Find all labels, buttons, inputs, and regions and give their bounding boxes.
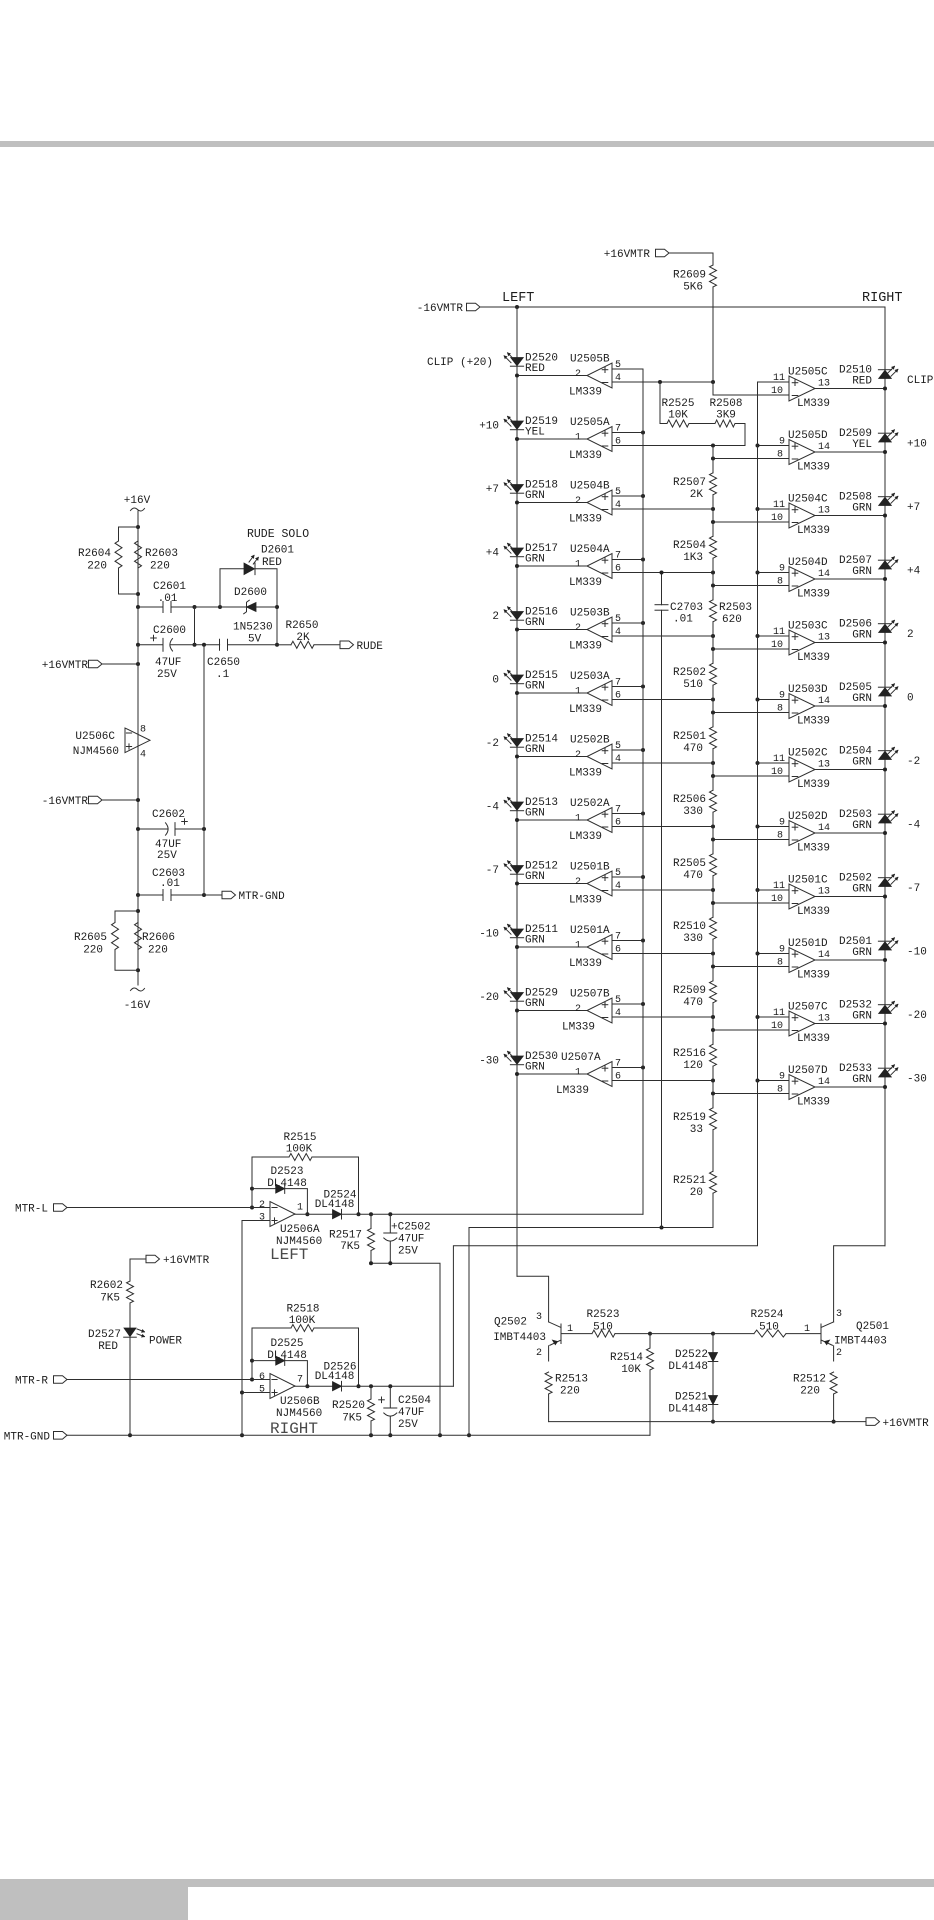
LED D2509 YEL bbox=[839, 428, 898, 451]
svg-text:GRN: GRN bbox=[852, 757, 872, 769]
wire threshold bbox=[612, 698, 715, 702]
resistor R2515 100K bbox=[250, 1132, 361, 1216]
LED D2530 GRN bbox=[504, 1051, 558, 1074]
svg-text:GRN: GRN bbox=[525, 490, 545, 502]
wire -16VMTR to rail bbox=[102, 798, 140, 802]
resistor R2505 470 bbox=[673, 854, 717, 882]
node scale -2 (right) bbox=[907, 756, 920, 768]
op-amp U2507A LM339 bbox=[556, 1052, 621, 1097]
svg-text:47UF: 47UF bbox=[155, 839, 181, 851]
svg-text:D2525: D2525 bbox=[270, 1338, 303, 1350]
resistor R2525 10K bbox=[660, 382, 695, 427]
label LEFT channel bbox=[270, 1246, 308, 1264]
svg-text:D2523: D2523 bbox=[270, 1166, 303, 1178]
LED D2507 GRN bbox=[839, 555, 898, 578]
svg-text:Q2502: Q2502 bbox=[494, 1317, 527, 1329]
wire pin stub bbox=[612, 621, 645, 625]
svg-text:470: 470 bbox=[683, 997, 703, 1009]
svg-text:10: 10 bbox=[771, 386, 783, 397]
svg-text:LM339: LM339 bbox=[797, 1097, 830, 1109]
capacitor C2602 47UF 25V bbox=[136, 809, 206, 862]
svg-text:+16VMTR: +16VMTR bbox=[883, 1418, 930, 1430]
op-amp U2503D LM339 bbox=[777, 684, 830, 728]
svg-text:U2501B: U2501B bbox=[570, 862, 610, 874]
wire threshold bbox=[711, 711, 789, 715]
svg-text:D2522: D2522 bbox=[675, 1349, 708, 1361]
wire output bbox=[815, 958, 887, 962]
svg-text:C2601: C2601 bbox=[153, 581, 186, 593]
svg-text:4: 4 bbox=[615, 754, 621, 765]
wire +16VMTR to rail bbox=[102, 662, 140, 666]
svg-text:LM339: LM339 bbox=[797, 525, 830, 537]
wire output bbox=[815, 450, 887, 454]
svg-text:11: 11 bbox=[773, 1008, 785, 1019]
svg-text:U2506B: U2506B bbox=[280, 1396, 320, 1408]
diode D2526 DL4148 bbox=[315, 1362, 357, 1392]
LED D2512 GRN bbox=[504, 861, 558, 884]
svg-text:D2600: D2600 bbox=[234, 587, 267, 599]
capacitor C2703 .01 bbox=[655, 571, 703, 1228]
svg-text:GRN: GRN bbox=[852, 693, 872, 705]
wire output bbox=[515, 1072, 587, 1076]
svg-text:U2503A: U2503A bbox=[570, 671, 610, 683]
wire ladder bbox=[712, 495, 714, 536]
svg-text:470: 470 bbox=[683, 870, 703, 882]
svg-text:LM339: LM339 bbox=[569, 641, 602, 653]
LED D2532 GRN bbox=[839, 1000, 898, 1023]
svg-text:5K6: 5K6 bbox=[683, 282, 703, 294]
svg-text:LEFT: LEFT bbox=[502, 291, 534, 306]
svg-text:25V: 25V bbox=[398, 1246, 418, 1258]
diode D2523 DL4148 bbox=[252, 1166, 309, 1216]
svg-text:D2527: D2527 bbox=[88, 1329, 121, 1341]
node scale -30 (left) bbox=[479, 1056, 499, 1068]
connector MTR-GND (mid-left) bbox=[204, 891, 285, 903]
wire output bbox=[515, 818, 587, 822]
svg-text:GRN: GRN bbox=[852, 884, 872, 896]
svg-text:2K: 2K bbox=[690, 489, 704, 501]
wire pin stub bbox=[756, 1015, 790, 1019]
wire threshold bbox=[711, 774, 789, 778]
svg-text:6: 6 bbox=[259, 1372, 265, 1383]
svg-text:NJM4560: NJM4560 bbox=[73, 746, 119, 758]
svg-text:9: 9 bbox=[779, 691, 785, 702]
svg-text:6: 6 bbox=[615, 691, 621, 702]
svg-text:C2703: C2703 bbox=[670, 602, 703, 614]
wire pin stub bbox=[756, 444, 790, 448]
svg-text:11: 11 bbox=[773, 881, 785, 892]
op-amp U2501C LM339 bbox=[771, 875, 830, 919]
svg-text:U2506A: U2506A bbox=[280, 1224, 320, 1236]
op-amp U2505C LM339 bbox=[771, 367, 830, 411]
op-amp U2503B LM339 bbox=[569, 608, 621, 653]
svg-text:DL4148: DL4148 bbox=[315, 1371, 355, 1383]
svg-text:5: 5 bbox=[615, 614, 621, 625]
wire -16VMTR rail top bbox=[480, 305, 885, 309]
svg-text:10: 10 bbox=[771, 513, 783, 524]
svg-text:R2602: R2602 bbox=[90, 1280, 123, 1292]
svg-text:R2521: R2521 bbox=[673, 1175, 706, 1187]
svg-text:LM339: LM339 bbox=[569, 958, 602, 970]
LED D2501 GRN bbox=[839, 936, 898, 959]
wire threshold bbox=[711, 457, 789, 461]
svg-text:U2507A: U2507A bbox=[561, 1052, 601, 1064]
svg-text:U2505A: U2505A bbox=[570, 417, 610, 429]
svg-text:RED: RED bbox=[98, 1341, 118, 1353]
wire ladder bbox=[712, 876, 714, 917]
svg-text:RED: RED bbox=[852, 376, 872, 388]
wire pin stub bbox=[612, 685, 645, 689]
wire pin stub bbox=[756, 888, 790, 892]
wire output bbox=[815, 704, 887, 708]
svg-text:LM339: LM339 bbox=[797, 779, 830, 791]
wire threshold bbox=[612, 507, 715, 511]
svg-text:7: 7 bbox=[615, 932, 621, 943]
svg-text:1: 1 bbox=[575, 814, 581, 825]
svg-text:5: 5 bbox=[615, 741, 621, 752]
svg-text:+10: +10 bbox=[907, 439, 927, 451]
wire MTR-R to pin 6 bbox=[67, 1379, 270, 1381]
svg-text:R2525: R2525 bbox=[661, 398, 694, 410]
svg-text:U2501A: U2501A bbox=[570, 925, 610, 937]
capacitor C2504 47UF 25V bbox=[379, 1384, 432, 1437]
wire node A to pin 10 bbox=[713, 382, 789, 395]
wire pin 5 ground bbox=[242, 1392, 270, 1394]
wire ladder bbox=[712, 622, 714, 663]
connector MTR-GND (bottom) bbox=[4, 1431, 67, 1443]
svg-text:LM339: LM339 bbox=[797, 906, 830, 918]
svg-text:U2501C: U2501C bbox=[788, 875, 828, 887]
wire threshold bbox=[711, 838, 789, 842]
svg-text:LM339: LM339 bbox=[569, 704, 602, 716]
svg-text:-2: -2 bbox=[907, 756, 920, 768]
svg-text:5: 5 bbox=[259, 1385, 265, 1396]
wire threshold bbox=[612, 571, 715, 575]
svg-text:LM339: LM339 bbox=[569, 514, 602, 526]
svg-text:11: 11 bbox=[773, 627, 785, 638]
svg-text:7K5: 7K5 bbox=[100, 1293, 120, 1305]
svg-text:MTR-GND: MTR-GND bbox=[4, 1431, 51, 1443]
svg-text:U2504B: U2504B bbox=[570, 481, 610, 493]
svg-text:D2601: D2601 bbox=[261, 545, 294, 557]
svg-text:14: 14 bbox=[818, 1077, 830, 1088]
wire pin stub bbox=[758, 381, 790, 383]
svg-text:LM339: LM339 bbox=[569, 450, 602, 462]
node scale -10 (right) bbox=[907, 947, 927, 959]
wire output bbox=[515, 628, 587, 632]
wire threshold bbox=[612, 825, 715, 829]
connector RUDE bbox=[340, 641, 383, 653]
wire output bbox=[815, 514, 887, 518]
node scale -30 (right) bbox=[907, 1074, 927, 1086]
svg-text:6: 6 bbox=[615, 564, 621, 575]
svg-text:LM339: LM339 bbox=[562, 1022, 595, 1034]
node scale +7 (left) bbox=[486, 484, 499, 496]
svg-text:GRN: GRN bbox=[525, 871, 545, 883]
svg-text:10: 10 bbox=[771, 894, 783, 905]
wire output bbox=[815, 895, 887, 899]
svg-text:U2504A: U2504A bbox=[570, 544, 610, 556]
svg-text:U2501D: U2501D bbox=[788, 938, 828, 950]
svg-text:LM339: LM339 bbox=[797, 843, 830, 855]
resistor R2602 7K5 bbox=[90, 1280, 134, 1305]
svg-text:+7: +7 bbox=[486, 484, 499, 496]
svg-text:LM339: LM339 bbox=[569, 831, 602, 843]
svg-text:1K3: 1K3 bbox=[683, 552, 703, 564]
svg-text:0: 0 bbox=[907, 693, 914, 705]
wire output bbox=[815, 1022, 887, 1026]
LED D2511 GRN bbox=[504, 924, 558, 947]
wire output bbox=[815, 831, 887, 835]
resistor R2510 330 bbox=[673, 917, 717, 945]
svg-text:1: 1 bbox=[297, 1203, 303, 1214]
svg-text:47UF: 47UF bbox=[398, 1407, 424, 1419]
svg-text:R2518: R2518 bbox=[286, 1304, 319, 1316]
svg-text:7: 7 bbox=[615, 678, 621, 689]
resistor R2603 220 bbox=[135, 541, 179, 573]
resistor R2514 10K bbox=[610, 1332, 654, 1436]
svg-text:25V: 25V bbox=[398, 1419, 418, 1431]
svg-text:6: 6 bbox=[615, 945, 621, 956]
svg-text:47UF: 47UF bbox=[155, 657, 181, 669]
svg-text:Q2501: Q2501 bbox=[856, 1321, 889, 1333]
diode D2522 DL4148 bbox=[668, 1334, 717, 1373]
svg-text:GRN: GRN bbox=[852, 1011, 872, 1023]
svg-text:3: 3 bbox=[836, 1309, 842, 1320]
op-amp U2502C LM339 bbox=[771, 748, 830, 792]
LED D2529 GRN bbox=[504, 988, 558, 1011]
svg-text:R2508: R2508 bbox=[709, 398, 742, 410]
svg-text:GRN: GRN bbox=[525, 617, 545, 629]
svg-text:MTR-R: MTR-R bbox=[15, 1376, 48, 1388]
svg-text:8: 8 bbox=[777, 958, 783, 969]
svg-text:7: 7 bbox=[615, 551, 621, 562]
node scale CLIP (+20) (left) bbox=[427, 357, 493, 369]
op-amp U2507C LM339 bbox=[771, 1002, 830, 1046]
svg-text:GRN: GRN bbox=[525, 681, 545, 693]
capacitor C2601 .01 bbox=[136, 581, 197, 613]
op-amp U2505D LM339 bbox=[777, 430, 830, 474]
svg-text:U2507C: U2507C bbox=[788, 1002, 828, 1014]
svg-text:LM339: LM339 bbox=[556, 1085, 589, 1097]
capacitor C2600 47UF 25V bbox=[136, 625, 195, 681]
svg-text:GRN: GRN bbox=[852, 630, 872, 642]
resistor R2504 1K3 bbox=[673, 536, 717, 564]
svg-text:R2512: R2512 bbox=[793, 1374, 826, 1386]
svg-text:LM339: LM339 bbox=[797, 462, 830, 474]
node scale -7 (right) bbox=[907, 883, 920, 895]
svg-text:20: 20 bbox=[690, 1187, 703, 1199]
resistor R2516 120 bbox=[673, 1044, 717, 1072]
wire base net bbox=[650, 1332, 715, 1336]
LED D2510 RED bbox=[839, 365, 898, 388]
op-amp U2503A LM339 bbox=[569, 671, 621, 716]
svg-text:R2523: R2523 bbox=[586, 1309, 619, 1321]
diode D2600 1N5230 5V bbox=[220, 587, 277, 646]
wire threshold bbox=[711, 584, 789, 588]
svg-text:U2502D: U2502D bbox=[788, 811, 828, 823]
op-amp U2504C LM339 bbox=[771, 494, 830, 538]
LED D2504 GRN bbox=[839, 746, 898, 769]
LED D2508 GRN bbox=[839, 492, 898, 515]
capacitor C2502 47UF 25V bbox=[384, 1212, 431, 1263]
svg-text:10K: 10K bbox=[621, 1364, 641, 1376]
op-amp U2501B LM339 bbox=[569, 862, 621, 907]
svg-text:C2602: C2602 bbox=[152, 809, 185, 821]
resistor R2519 33 bbox=[673, 1108, 717, 1136]
op-amp U2506C NJM4560 bbox=[73, 725, 150, 761]
svg-text:LM339: LM339 bbox=[797, 589, 830, 601]
wire pin stub bbox=[612, 1066, 645, 1070]
svg-text:+16VMTR: +16VMTR bbox=[42, 660, 89, 672]
svg-text:U2507D: U2507D bbox=[788, 1065, 828, 1077]
wire pin stub bbox=[612, 1002, 645, 1006]
LED D2519 YEL bbox=[504, 416, 558, 439]
wire pin stub bbox=[756, 571, 790, 575]
svg-text:8: 8 bbox=[777, 1085, 783, 1096]
power -16V bbox=[124, 988, 151, 1012]
resistor R2501 470 bbox=[673, 727, 717, 755]
LED D2513 GRN bbox=[504, 797, 558, 820]
label RIGHT bbox=[862, 291, 903, 306]
svg-text:-16VMTR: -16VMTR bbox=[417, 303, 464, 315]
wire rail to R2605 pair bbox=[136, 895, 140, 985]
svg-text:GRN: GRN bbox=[525, 1062, 545, 1074]
wire output bbox=[815, 768, 887, 772]
svg-text:+4: +4 bbox=[486, 548, 500, 560]
resistor R2650 2K bbox=[277, 620, 340, 648]
op-amp U2507B LM339 bbox=[562, 989, 621, 1034]
svg-text:7: 7 bbox=[297, 1375, 303, 1386]
power -16VMTR (top) bbox=[417, 303, 480, 315]
LED D2601 RED bbox=[244, 545, 294, 575]
svg-text:.01: .01 bbox=[158, 593, 178, 605]
svg-text:5: 5 bbox=[615, 487, 621, 498]
wire output bbox=[515, 1009, 587, 1013]
svg-text:-20: -20 bbox=[479, 992, 499, 1004]
resistor R2524 510 bbox=[750, 1309, 821, 1337]
svg-text:+C2502: +C2502 bbox=[391, 1222, 431, 1234]
wire ladder bbox=[712, 446, 714, 473]
op-amp U2503C LM339 bbox=[771, 621, 830, 665]
svg-text:U2505D: U2505D bbox=[788, 430, 828, 442]
svg-text:330: 330 bbox=[683, 933, 703, 945]
resistor R2508 3K9 bbox=[689, 398, 745, 446]
op-amp U2504B LM339 bbox=[569, 481, 621, 526]
svg-text:510: 510 bbox=[593, 1322, 613, 1334]
wire MTR-L to pin 2 bbox=[67, 1207, 270, 1209]
node scale +10 (left) bbox=[479, 421, 499, 433]
wire node A bbox=[612, 380, 715, 384]
svg-text:YEL: YEL bbox=[852, 439, 872, 451]
svg-text:5: 5 bbox=[615, 995, 621, 1006]
svg-text:.01: .01 bbox=[673, 614, 693, 626]
svg-text:9: 9 bbox=[779, 945, 785, 956]
wire right rail to Q2501 bbox=[834, 1246, 885, 1322]
label RIGHT channel bbox=[270, 1420, 318, 1438]
svg-text:R2513: R2513 bbox=[555, 1374, 588, 1386]
svg-text:GRN: GRN bbox=[852, 503, 872, 515]
svg-text:R2502: R2502 bbox=[673, 667, 706, 679]
svg-text:4: 4 bbox=[615, 627, 621, 638]
svg-text:8: 8 bbox=[777, 704, 783, 715]
svg-text:RUDE SOLO: RUDE SOLO bbox=[247, 528, 309, 541]
svg-text:GRN: GRN bbox=[525, 935, 545, 947]
wire output bbox=[815, 641, 887, 645]
svg-text:220: 220 bbox=[150, 561, 170, 573]
svg-text:LM339: LM339 bbox=[797, 652, 830, 664]
svg-text:RUDE: RUDE bbox=[357, 641, 384, 653]
wire ladder bbox=[712, 1130, 714, 1171]
wire +16V down bbox=[136, 511, 140, 607]
svg-text:2: 2 bbox=[575, 750, 581, 761]
svg-text:4: 4 bbox=[615, 373, 621, 384]
svg-text:2: 2 bbox=[492, 611, 499, 623]
LED D2517 GRN bbox=[504, 543, 558, 566]
svg-text:8: 8 bbox=[777, 831, 783, 842]
wire R2609 to node A bbox=[712, 287, 714, 382]
svg-text:LM339: LM339 bbox=[569, 577, 602, 589]
svg-text:7K5: 7K5 bbox=[342, 1413, 362, 1425]
svg-text:1: 1 bbox=[567, 1324, 573, 1335]
node scale 2 (left) bbox=[492, 611, 499, 623]
diode D2525 DL4148 bbox=[252, 1338, 309, 1388]
svg-text:-2: -2 bbox=[486, 738, 499, 750]
wire pin stub bbox=[612, 494, 645, 498]
wire right signal bus bbox=[453, 382, 757, 1386]
wire threshold bbox=[612, 1079, 715, 1083]
wire decoupling return bbox=[203, 645, 205, 895]
wire pin stub bbox=[756, 507, 790, 511]
op-amp U2501D LM339 bbox=[777, 938, 830, 982]
svg-text:R2605: R2605 bbox=[74, 932, 107, 944]
svg-text:6: 6 bbox=[615, 437, 621, 448]
resistor R2503 620 bbox=[710, 600, 753, 626]
svg-text:YEL: YEL bbox=[525, 427, 545, 439]
wire threshold bbox=[612, 952, 715, 956]
svg-text:R2501: R2501 bbox=[673, 731, 706, 743]
svg-text:220: 220 bbox=[148, 945, 168, 957]
svg-text:-7: -7 bbox=[907, 883, 920, 895]
op-amp U2505B LM339 bbox=[569, 354, 621, 399]
node scale -10 (left) bbox=[479, 929, 499, 941]
svg-text:U2505C: U2505C bbox=[788, 367, 828, 379]
op-amp U2506B NJM4560 bbox=[259, 1372, 322, 1420]
svg-text:+16VMTR: +16VMTR bbox=[604, 249, 651, 261]
svg-text:470: 470 bbox=[683, 743, 703, 755]
svg-text:3: 3 bbox=[536, 1312, 542, 1323]
svg-text:LM339: LM339 bbox=[569, 387, 602, 399]
svg-text:5: 5 bbox=[615, 868, 621, 879]
svg-text:10K: 10K bbox=[668, 410, 688, 422]
resistor R2506 330 bbox=[673, 790, 717, 818]
svg-text:-10: -10 bbox=[479, 929, 499, 941]
power +16VMTR (bottom right) bbox=[866, 1418, 929, 1430]
svg-text:+7: +7 bbox=[907, 502, 920, 514]
svg-text:LEFT: LEFT bbox=[270, 1246, 308, 1264]
node scale -20 (right) bbox=[907, 1010, 927, 1022]
svg-text:C2504: C2504 bbox=[398, 1395, 431, 1407]
svg-text:R2503: R2503 bbox=[719, 602, 752, 614]
wire left LED rail bbox=[516, 307, 518, 1276]
svg-text:DL4148: DL4148 bbox=[315, 1199, 355, 1211]
wire output bbox=[815, 1085, 887, 1089]
transistor Q2501 IMBT4403 bbox=[804, 1309, 889, 1361]
svg-text:2K: 2K bbox=[296, 632, 310, 644]
svg-text:R2520: R2520 bbox=[332, 1400, 365, 1412]
svg-text:R2606: R2606 bbox=[142, 932, 175, 944]
wire pin stub bbox=[612, 368, 643, 370]
